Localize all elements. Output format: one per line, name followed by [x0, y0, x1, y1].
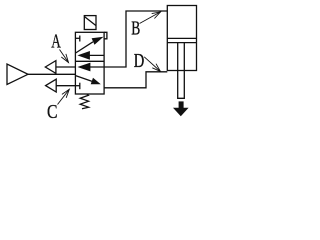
leader arrow for B: [140, 12, 161, 24]
valve V1 flow arrow 2 (bottom square, points left): [77, 63, 104, 72]
valve V1 top-right stub box: [104, 32, 107, 39]
svg-text:B: B: [131, 18, 140, 40]
wire lower pipe: valve bottom-right port to cylinder bottom: [104, 72, 167, 88]
valve V1 port P5 blocked stub (bottom-left): [75, 83, 79, 90]
wire upper pipe: valve right port to cylinder top: [104, 11, 167, 67]
valve V1 flow arrow diagonal (bottom square, down-right): [76, 76, 101, 85]
valve V1 divider line: [75, 60, 104, 62]
pressure source triangle: [7, 64, 28, 85]
wire exhaust line 1: [56, 66, 76, 68]
svg-text:C: C: [47, 101, 58, 123]
exhaust triangle 2: [46, 79, 57, 92]
leader arrow for C: [58, 89, 70, 104]
valve V1 flow arrow 1 (top square, points left): [77, 51, 104, 60]
solenoid U1 diagonal: [85, 17, 97, 26]
svg-text:D: D: [134, 50, 145, 72]
wire supply line: [28, 73, 75, 75]
exhaust triangle 1: [45, 61, 56, 74]
svg-text:A: A: [51, 31, 61, 53]
arrow rod-motion (filled, down): [173, 101, 189, 116]
cylinder C1 rod: [178, 43, 185, 99]
spring S1 (valve return): [80, 94, 88, 109]
leader arrow for D: [144, 57, 160, 72]
leader arrow for A: [60, 50, 69, 63]
valve V1 flow arrow diagonal (top square, up-right): [76, 37, 104, 53]
cylinder C1 barrel: [167, 6, 196, 71]
wire exhaust line 2: [56, 85, 75, 87]
valve V1 port P1 blocked stub (top-left): [75, 36, 79, 42]
valve V1 body: [75, 32, 104, 94]
cylinder C1 piston line 1: [167, 37, 196, 39]
cylinder C1 piston line 2: [167, 42, 196, 44]
solenoid U1 box: [84, 16, 96, 30]
